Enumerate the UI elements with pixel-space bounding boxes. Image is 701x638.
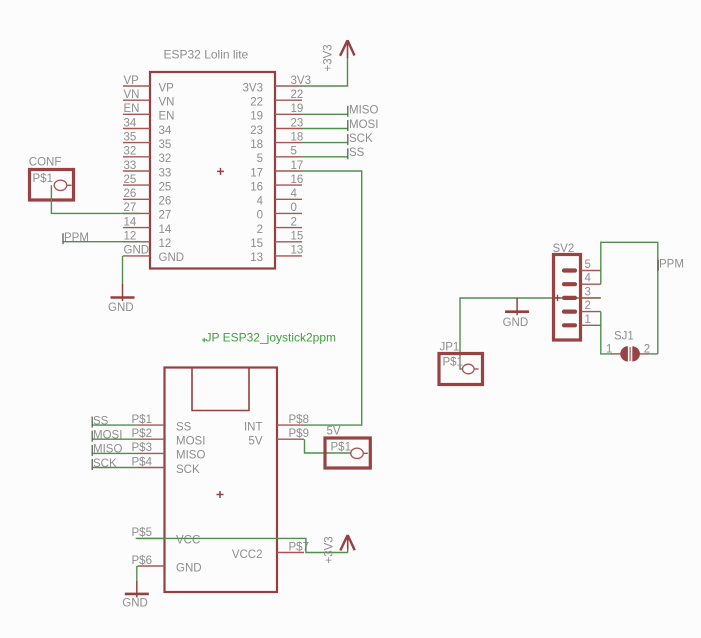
svg-text:23: 23 (250, 125, 263, 137)
SJ1 pad 1 (606, 344, 628, 362)
svg-text:P$1: P$1 (443, 357, 463, 369)
U1 right pin 19 (250, 103, 303, 123)
SV2 pin 3 (564, 286, 601, 298)
svg-text:MOSI: MOSI (349, 119, 378, 131)
svg-text:MISO: MISO (349, 105, 378, 117)
svg-text:1: 1 (606, 344, 612, 356)
svg-text:JP1: JP1 (440, 342, 460, 354)
JP right pin P$9 (5V) (248, 428, 309, 448)
svg-text:5V: 5V (327, 426, 341, 438)
svg-text:VN: VN (124, 89, 140, 101)
jumper CONF body (30, 170, 74, 201)
svg-text:16: 16 (250, 181, 263, 193)
U1 left pin 27 (123, 202, 171, 222)
JP left pin P$5 (VCC) (132, 527, 201, 547)
svg-text:27: 27 (159, 210, 172, 222)
ground GND (under U1) (108, 284, 135, 314)
svg-text:22: 22 (291, 89, 304, 101)
svg-text:SCK: SCK (349, 133, 373, 145)
svg-text:SS: SS (349, 147, 365, 159)
JP left pin P$2 (MOSI) (132, 428, 206, 448)
svg-text:0: 0 (257, 210, 263, 222)
svg-text:19: 19 (250, 111, 263, 123)
SJ1 pin 2 stub (639, 353, 649, 355)
svg-text:2: 2 (291, 216, 297, 228)
SJ1 center line (629, 347, 631, 361)
svg-text:GND: GND (122, 598, 148, 610)
svg-text:0: 0 (291, 202, 297, 214)
svg-text:5: 5 (291, 146, 297, 158)
U1 left pin 34 (123, 117, 172, 137)
jumper JP1 body (439, 354, 483, 385)
U1 left pin VP (123, 75, 174, 95)
wire CONF to U1 pin 27 (51, 185, 139, 213)
svg-text:ESP32 Lolin lite: ESP32 Lolin lite (164, 48, 249, 62)
U1 right pin 15 (250, 231, 303, 251)
svg-text:22: 22 (250, 97, 263, 109)
U1 right pin 13 (250, 245, 303, 265)
IC U1 origin cross (217, 170, 224, 172)
wire/label net SCK to JP (92, 458, 138, 470)
svg-text:5: 5 (257, 153, 263, 165)
U1 right pin 3V3 (243, 75, 311, 95)
wire/label net PPM to U1 pin 12 (63, 232, 139, 244)
svg-text:32: 32 (159, 153, 172, 165)
U1 left pin 35 (123, 131, 171, 151)
connector SV2 origin cross (554, 297, 560, 299)
wire JP P$9 to 5V jumper (305, 439, 351, 453)
jumper JP1 pin P$1 (443, 357, 479, 374)
svg-text:INT: INT (244, 421, 263, 433)
svg-text:SCK: SCK (176, 464, 200, 476)
svg-text:32: 32 (124, 146, 137, 158)
svg-text:VP: VP (124, 75, 140, 87)
wire net VCC / +3V3 through JP (P$5 to P$7) (136, 538, 348, 552)
SV2 pin 5 (564, 259, 601, 271)
svg-text:P$6: P$6 (132, 555, 152, 567)
wire net MISO from U1 (302, 105, 378, 117)
U1 right pin 17 (250, 160, 303, 180)
U1 left pin EN (123, 103, 174, 123)
U1 left pin 25 (123, 174, 171, 194)
wire/label net MOSI to JP (92, 430, 138, 442)
U1 left pin 33 (123, 160, 171, 180)
svg-text:P$4: P$4 (132, 456, 153, 468)
svg-text:JP ESP32_joystick2ppm: JP ESP32_joystick2ppm (206, 331, 337, 345)
SV2 pin 1 (564, 314, 601, 326)
svg-text:GND: GND (176, 562, 202, 574)
svg-text:23: 23 (291, 117, 304, 129)
svg-text:P$2: P$2 (132, 428, 152, 440)
svg-text:P$8: P$8 (289, 414, 309, 426)
wire/label net MISO to JP (92, 444, 138, 456)
part JP title ESP32_joystick2ppm (202, 331, 336, 345)
JP right pin P$7 (VCC2) (232, 541, 309, 561)
U1 left pin GND (123, 245, 184, 265)
U1 right pin 0 (257, 202, 302, 222)
module JP origin cross (217, 494, 224, 496)
svg-text:25: 25 (159, 181, 172, 193)
svg-text:14: 14 (159, 224, 172, 236)
svg-text:25: 25 (124, 174, 137, 186)
svg-text:16: 16 (291, 174, 304, 186)
SJ1 pin 1 stub (611, 353, 621, 355)
U1 right pin 5 (257, 146, 302, 166)
jumper 5V body (325, 438, 370, 468)
wire SJ1 pad 2 to PPM net (648, 353, 658, 355)
svg-text:VCC2: VCC2 (232, 549, 263, 561)
SV2 pin 2 (564, 300, 601, 312)
IC U1 ESP32 Lolin lite body (150, 72, 275, 269)
U1 left pin 14 (123, 216, 172, 236)
svg-text:3V3: 3V3 (291, 75, 311, 87)
svg-text:14: 14 (124, 216, 137, 228)
svg-text:26: 26 (124, 188, 137, 200)
svg-text:VP: VP (159, 82, 175, 94)
label net PPM (right) (658, 259, 684, 271)
svg-text:CONF: CONF (29, 156, 62, 168)
U1 right pin 2 (257, 216, 302, 236)
wire/label net SS to JP (92, 415, 138, 427)
svg-text:GND: GND (108, 302, 134, 314)
svg-text:P$1: P$1 (33, 173, 53, 185)
connector SV2 body (554, 255, 581, 341)
svg-text:34: 34 (124, 117, 137, 129)
svg-text:SS: SS (93, 415, 109, 427)
ground GND (right) (503, 298, 529, 329)
wire net SS from U1 (302, 147, 365, 159)
svg-text:33: 33 (159, 167, 172, 179)
svg-text:35: 35 (159, 139, 172, 151)
svg-text:5V: 5V (248, 436, 262, 448)
svg-text:2: 2 (257, 224, 263, 236)
wire JP P$6 to ground (136, 566, 138, 581)
module JP body (165, 368, 278, 593)
svg-text:3V3: 3V3 (243, 82, 263, 94)
svg-text:MISO: MISO (176, 450, 205, 462)
JP left pin P$6 (GND) (132, 555, 202, 575)
JP left pin P$3 (MISO) (132, 442, 206, 462)
svg-text:P$3: P$3 (132, 442, 152, 454)
svg-text:12: 12 (124, 231, 137, 243)
svg-text:15: 15 (250, 238, 263, 250)
svg-text:15: 15 (291, 231, 304, 243)
svg-text:34: 34 (159, 125, 172, 137)
svg-text:5: 5 (585, 259, 591, 271)
JP left pin P$1 (SS) (132, 414, 192, 434)
wire net GND/JP1: SV2 pin 3 to left (460, 298, 601, 369)
svg-text:3: 3 (585, 286, 591, 298)
module JP notch (USB) (192, 369, 249, 411)
U1 left pin 26 (123, 188, 171, 208)
wire net SCK from U1 (302, 133, 373, 145)
svg-text:MISO: MISO (93, 444, 122, 456)
svg-text:18: 18 (250, 139, 263, 151)
svg-text:P$9: P$9 (289, 428, 309, 440)
svg-text:2: 2 (585, 300, 591, 312)
svg-text:EN: EN (159, 111, 175, 123)
svg-text:4: 4 (291, 188, 298, 200)
svg-text:PPM: PPM (659, 259, 684, 271)
JP right pin P$8 (INT) (244, 414, 309, 434)
wire U1 GND pin to ground (122, 256, 124, 284)
svg-text:SCK: SCK (93, 458, 117, 470)
svg-text:GND: GND (124, 245, 150, 257)
svg-text:GND: GND (159, 252, 185, 264)
svg-text:+3V3: +3V3 (324, 536, 336, 563)
svg-text:2: 2 (644, 344, 650, 356)
svg-text:27: 27 (124, 202, 137, 214)
svg-text:1: 1 (585, 314, 591, 326)
svg-text:GND: GND (503, 317, 529, 329)
U1 left pin 12 (123, 231, 171, 251)
U1 left pin VN (123, 89, 174, 109)
svg-text:26: 26 (159, 196, 172, 208)
svg-text:P$1: P$1 (331, 442, 351, 454)
svg-text:13: 13 (250, 252, 263, 264)
svg-text:VCC: VCC (176, 535, 200, 547)
svg-text:P$5: P$5 (132, 527, 152, 539)
svg-text:MOSI: MOSI (93, 430, 122, 442)
wire stem to +3V3 arrow (bottom) (347, 548, 349, 553)
svg-text:+3V3: +3V3 (323, 44, 335, 71)
jumper CONF pin P$1 (33, 173, 72, 191)
wire net from U1 pin 17 down to JP pin P$8 (302, 171, 362, 425)
svg-text:12: 12 (159, 238, 172, 250)
wire net MOSI from U1 (302, 119, 378, 131)
SJ1 pad 2 (632, 344, 650, 362)
JP left pin P$4 (SCK) (132, 456, 200, 476)
svg-text:EN: EN (124, 103, 140, 115)
svg-text:4: 4 (585, 273, 592, 285)
U1 right pin 4 (257, 188, 302, 208)
ground GND (under JP) (122, 581, 149, 610)
svg-text:4: 4 (257, 196, 264, 208)
svg-text:17: 17 (291, 160, 304, 172)
svg-text:MOSI: MOSI (176, 436, 205, 448)
svg-text:VN: VN (159, 97, 175, 109)
wire SV2 pins 1,2 down to SJ1 pad 1 (601, 312, 612, 354)
svg-text:19: 19 (291, 103, 304, 115)
jumper 5V pin P$1 (331, 442, 368, 459)
supply +3V3 (top) (340, 40, 354, 58)
svg-text:18: 18 (291, 131, 304, 143)
svg-text:33: 33 (124, 160, 137, 172)
svg-text:35: 35 (124, 131, 137, 143)
svg-text:PPM: PPM (64, 232, 89, 244)
U1 right pin 23 (250, 117, 303, 137)
U1 right pin 18 (250, 131, 303, 151)
svg-text:SS: SS (176, 421, 192, 433)
supply +3V3 (bottom) (340, 535, 354, 551)
svg-text:17: 17 (250, 167, 263, 179)
svg-text:SJ1: SJ1 (614, 331, 634, 343)
svg-text:P$1: P$1 (132, 414, 152, 426)
U1 left pin 32 (123, 146, 171, 166)
SV2 pin 4 (564, 273, 601, 285)
wire net 3V3: U1 pin 3V3 to +3V3 supply (302, 57, 348, 86)
wire net PPM: SV2 pins 4,5 up and over (601, 242, 658, 354)
U1 right pin 22 (250, 89, 303, 109)
svg-text:13: 13 (291, 245, 304, 257)
U1 right pin 16 (250, 174, 303, 194)
